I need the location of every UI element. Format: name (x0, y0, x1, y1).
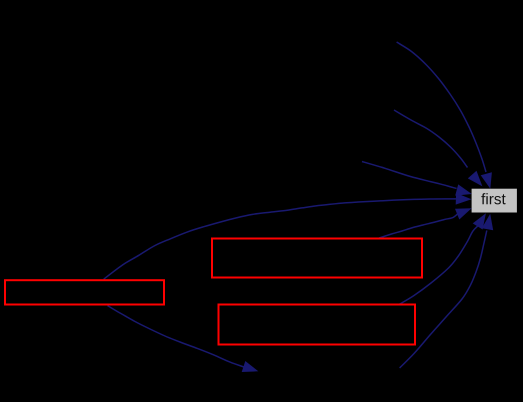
current node "first" (grey box) (472, 189, 517, 213)
label "first" (drawn as vector path, Liberation Sans 15px) (481, 193, 505, 204)
edge nodeG->first (394, 110, 482, 186)
edge boxA->nodeD (108, 306, 259, 372)
edge boxA->first (104, 193, 472, 279)
red caller box C (middle lower) (219, 305, 416, 345)
edge nodeF->first (397, 42, 492, 189)
red caller box A (bottom-left) (5, 280, 164, 304)
edge nodeE->first (362, 162, 472, 196)
edge boxC->first (400, 213, 486, 304)
node G (hidden caller box) (288, 86, 394, 111)
edge nodeD->first (400, 214, 494, 368)
node F (hidden caller box) (290, 18, 396, 43)
edge boxB->first (379, 208, 472, 238)
red caller box B (middle upper) (212, 239, 422, 278)
node D (hidden caller box, black on black) (260, 358, 397, 384)
node E (hidden caller box) (250, 149, 362, 174)
